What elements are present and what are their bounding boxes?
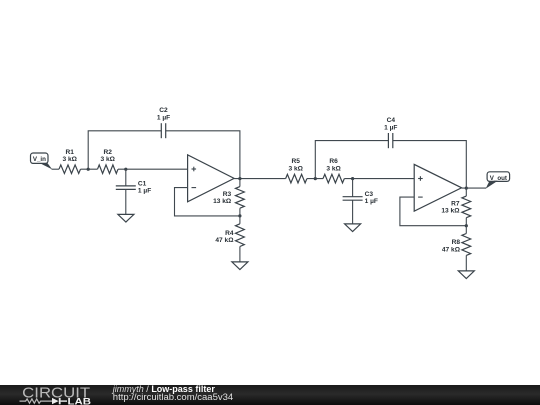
label R3 13 kΩ [213,191,232,205]
wire node A up to C2 [88,131,161,169]
wire R1 to R2 [81,168,98,170]
svg-text:C2: C2 [159,107,168,114]
svg-text:R6: R6 [329,158,338,165]
wire R8 to ground [465,255,467,271]
svg-text:47 kΩ: 47 kΩ [442,246,461,253]
net flag V_in [31,153,53,169]
capacitor C4 [388,133,392,148]
wire R5 to R6 [307,178,323,180]
wire node D to R4 [239,216,241,224]
wire R3 to node D [239,208,241,216]
label R6 3 kΩ [326,158,341,172]
node B (R2-C1-U1+) [124,168,127,171]
svg-text:R4: R4 [225,230,234,237]
resistor R5 [286,174,307,183]
label R1 3 kΩ [62,149,77,163]
wire node E up to C4 [315,141,388,179]
label R2 3 kΩ [100,149,115,163]
CircuitLab logo [15,385,111,405]
wire U1 -in feedback [175,188,240,216]
node C (U1 out) [238,177,241,180]
wire R2 to op-amp U1 +in [118,168,188,170]
wire R7 to node H [465,218,467,226]
resistor R4 [236,224,245,247]
svg-text:R5: R5 [291,158,300,165]
svg-text:C3: C3 [365,191,374,198]
wire V_in to R1 [52,168,60,170]
svg-text:13 kΩ: 13 kΩ [213,198,232,205]
wire U2 output to V_out [462,187,486,189]
label R4 47 kΩ [215,230,234,244]
node F (R6-C3-U2+) [351,177,354,180]
wire out to R3 [239,179,241,187]
svg-text:3 kΩ: 3 kΩ [62,156,77,163]
wire node B down to C1 [125,169,127,186]
wire node F down to C3 [352,179,354,197]
net flag V_out [486,172,510,189]
capacitor C3 [343,197,363,201]
wire R4 to ground [239,247,241,262]
svg-text:LAB: LAB [68,396,92,405]
svg-text:R1: R1 [65,149,74,156]
label R7 13 kΩ [441,200,460,214]
resistor R6 [323,174,344,183]
svg-text:V_out: V_out [490,175,507,182]
svg-text:1 µF: 1 µF [157,114,170,121]
wire C2 to U1 output [166,131,240,179]
svg-text:R2: R2 [103,149,112,156]
svg-text:47 kΩ: 47 kΩ [215,237,234,244]
label R5 3 kΩ [288,158,303,172]
node H (R7-R8-fb) [465,224,468,227]
label C1 1 µF [138,181,151,195]
svg-text:R7: R7 [451,200,460,207]
node E (R5-R6-C4) [314,177,317,180]
logo resistor squiggle [20,398,53,402]
svg-text:3 kΩ: 3 kΩ [100,156,115,163]
node G (U2 out) [465,187,468,190]
wire node H to R8 [465,226,467,234]
resistor R3 [236,187,245,209]
logo diode [52,397,59,403]
wire C4 to U2 output [393,141,467,189]
wire U1 output to R5 [234,178,286,180]
svg-text:3 kΩ: 3 kΩ [288,165,303,172]
wire U2 -in feedback [400,197,466,226]
resistor R8 [462,234,471,256]
resistor R2 [98,165,119,174]
svg-text:1 µF: 1 µF [384,124,397,131]
resistor R7 [462,196,471,218]
node D (R3-R4-fb) [238,214,241,217]
capacitor C1 [116,186,136,190]
wire R6 to op-amp U2 +in [344,178,414,180]
svg-text:1 µF: 1 µF [138,188,151,195]
svg-text:C1: C1 [138,181,147,188]
resistor R1 [59,165,81,174]
op-amp U1 [188,155,235,202]
svg-text:V_in: V_in [33,156,46,163]
wire C3 to ground [352,200,354,224]
svg-text:3 kΩ: 3 kΩ [326,165,341,172]
wire C1 to ground [125,189,127,214]
ground (R4) [232,262,248,270]
label C2 1 µF [157,107,170,121]
svg-text:1 µF: 1 µF [365,198,378,205]
label C4 1 µF [384,117,397,131]
ground (C3) [345,224,361,232]
svg-text:R8: R8 [452,239,461,246]
ground (C1) [118,214,134,222]
svg-text:C4: C4 [387,117,396,124]
label R8 47 kΩ [442,239,461,253]
footer title text [113,385,233,404]
svg-text:13 kΩ: 13 kΩ [441,208,460,215]
svg-text:R3: R3 [223,191,232,198]
node A (R1-R2-C2) [87,168,90,171]
capacitor C2 [161,123,165,138]
ground (R8) [458,271,474,279]
op-amp U2 [414,164,461,211]
label C3 1 µF [365,191,378,205]
wire out to R7 [465,188,467,196]
